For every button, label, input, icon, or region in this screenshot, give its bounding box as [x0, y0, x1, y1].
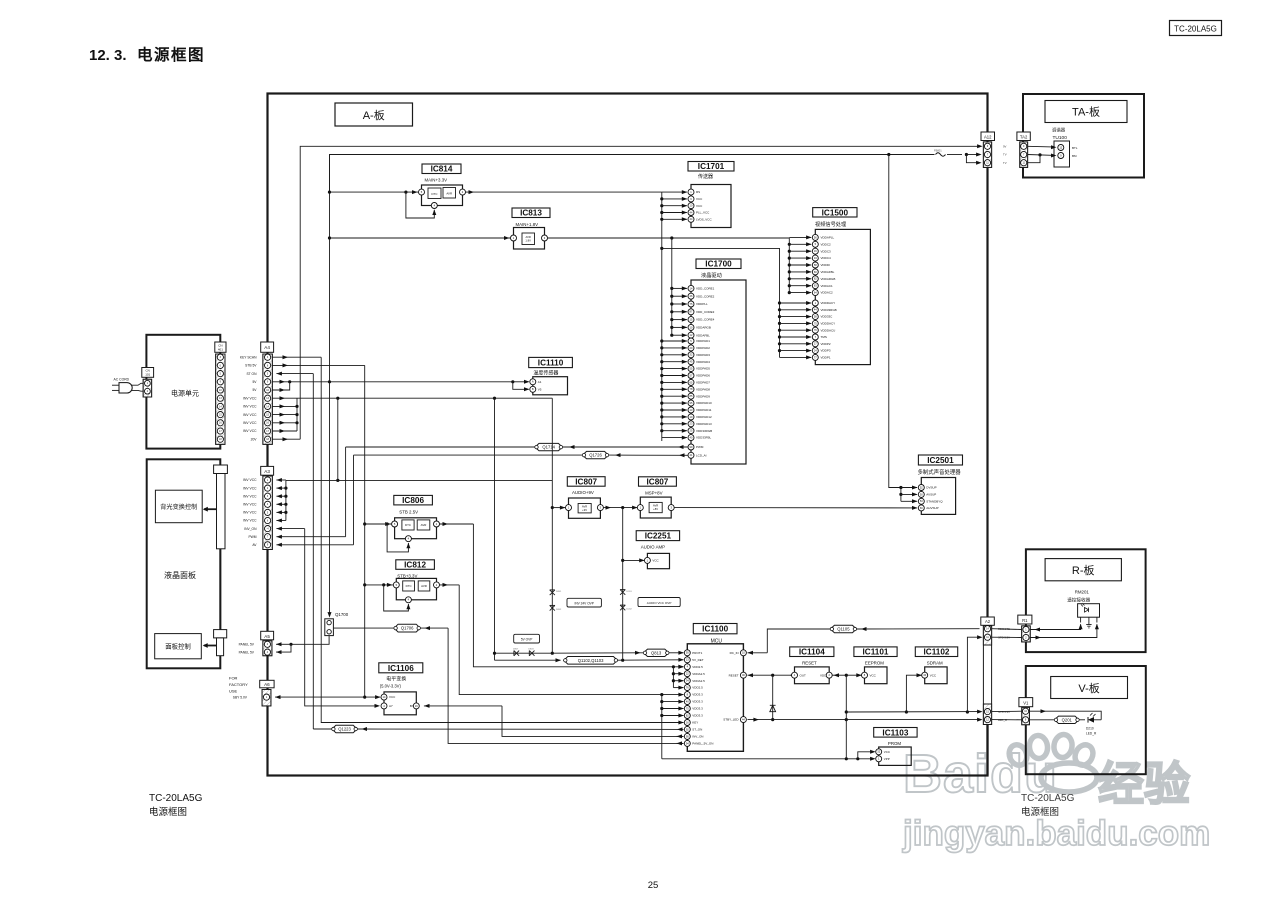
- svg-text:B: B: [532, 387, 534, 391]
- wire IC2251 VCC feed: [623, 559, 645, 561]
- svg-text:IC807: IC807: [575, 477, 597, 486]
- temperature sensor IC1110 label: [529, 357, 573, 367]
- panel connector bar top: [214, 465, 228, 474]
- svg-text:VCC: VCC: [884, 750, 891, 754]
- wire IC1102 VCC feed riser: [906, 675, 921, 712]
- arrow into backlight control: [204, 508, 217, 510]
- svg-text:VDD_CORE1: VDD_CORE1: [696, 287, 715, 291]
- svg-text:VDDC4: VDDC4: [821, 256, 832, 260]
- net 5V vertical rail: [329, 155, 331, 616]
- svg-text:VDD3.3: VDD3.3: [692, 693, 703, 697]
- svg-text:IC2251: IC2251: [645, 532, 672, 541]
- svg-text:5V OVP: 5V OVP: [521, 637, 533, 641]
- svg-text:VDDPAD13: VDDPAD13: [696, 422, 712, 426]
- svg-text:V1: V1: [1023, 700, 1029, 705]
- power supply unit box 电源单元: [146, 335, 220, 449]
- IC1500 group1 feed bus: [788, 238, 790, 293]
- prom IC1103 label: [874, 728, 917, 738]
- A-board label box A-板: [335, 103, 413, 126]
- svg-text:R-板: R-板: [1072, 563, 1095, 577]
- svg-text:VCC: VCC: [870, 673, 877, 677]
- net INV_VCC bus at A4: [272, 397, 297, 399]
- connector A2: [981, 617, 995, 625]
- svg-text:AVR: AVR: [446, 191, 452, 195]
- svg-text:液晶面板: 液晶面板: [164, 570, 196, 580]
- transistor Q1714: [535, 443, 562, 450]
- svg-text:VDDPAD12: VDDPAD12: [696, 415, 712, 419]
- svg-text:AVR: AVR: [582, 504, 587, 508]
- wire TA2 pin3 junction: [1028, 155, 1040, 163]
- IC1700 group1 feed bus: [671, 238, 673, 335]
- net INV_VCC drop to IC807 and OVP: [551, 398, 553, 653]
- IC1100 block: [687, 644, 743, 752]
- svg-text:VDDPAD2: VDDPAD2: [696, 346, 710, 350]
- svg-text:FACTORY: FACTORY: [229, 682, 248, 687]
- svg-text:VDDAFBL: VDDAFBL: [821, 270, 835, 274]
- sound processor IC2501 label 多制式声音处理器: [918, 455, 962, 465]
- MCU VDD2.5 bus: [672, 665, 675, 668]
- svg-text:LED_R: LED_R: [1086, 732, 1097, 736]
- svg-text:PANEL 5V: PANEL 5V: [239, 650, 255, 654]
- svg-text:12. 3.: 12. 3.: [89, 47, 127, 64]
- svg-text:B7: B7: [410, 704, 414, 708]
- svg-text:A-板: A-板: [363, 108, 385, 122]
- svg-text:STBY_LED: STBY_LED: [723, 718, 739, 722]
- svg-text:V-板: V-板: [1078, 681, 1099, 695]
- svg-text:STANDBYQ: STANDBYQ: [926, 499, 943, 503]
- svg-text:VDDPAD10: VDDPAD10: [696, 401, 712, 405]
- net AV A3 riser: [276, 544, 353, 546]
- svg-text:D202: D202: [627, 609, 633, 611]
- svg-text:VDDPLL: VDDPLL: [696, 302, 708, 306]
- svg-text:IC1100: IC1100: [702, 625, 728, 634]
- svg-text:VDDPAD8: VDDPAD8: [696, 387, 710, 391]
- wire R1 pin2 to RM201 vcc: [1030, 624, 1097, 637]
- IC1701 feed bus: [661, 192, 663, 441]
- svg-text:VDD3.3: VDD3.3: [692, 700, 703, 704]
- svg-text:101: 101: [145, 373, 150, 377]
- wire IC814 output to IC bus: [466, 191, 662, 193]
- svg-text:VDD3.3: VDD3.3: [692, 707, 703, 711]
- level shifter IC1106 label: [379, 663, 423, 673]
- connector A3: [261, 466, 274, 475]
- IC1700 PWM pin: [688, 444, 694, 450]
- svg-text:IC1102: IC1102: [924, 648, 950, 657]
- svg-text:SDRAM: SDRAM: [927, 660, 943, 665]
- wire IC814 feedback loop: [404, 191, 407, 194]
- wire Q1105 from A2 REMOTE: [856, 628, 979, 630]
- svg-text:IC1103: IC1103: [882, 728, 908, 737]
- svg-text:TV: TV: [1003, 153, 1007, 157]
- connector A4: [261, 342, 274, 352]
- svg-text:BTL: BTL: [1072, 146, 1078, 150]
- regulator IC806 label STB 2.5V: [394, 495, 433, 505]
- wires plug to CN101: [131, 383, 144, 385]
- wire IC807 MSP output to IC2501 AHVSUP: [674, 507, 917, 509]
- svg-text:调谐器: 调谐器: [1052, 127, 1066, 134]
- IC1101 block: [865, 667, 888, 684]
- svg-text:Q1700: Q1700: [335, 612, 349, 617]
- svg-text:PWM: PWM: [248, 535, 256, 539]
- svg-text:经验: 经验: [1098, 758, 1190, 810]
- svg-text:Q1726: Q1726: [589, 453, 602, 458]
- svg-text:背光变换控制: 背光变换控制: [160, 503, 197, 511]
- IC1110 block: [533, 377, 568, 395]
- svg-text:D201: D201: [627, 591, 633, 593]
- svg-text:IC1106: IC1106: [388, 664, 414, 673]
- svg-text:RC_IN: RC_IN: [730, 651, 739, 655]
- wire IC1106 B7 to MCU INV_ON: [424, 705, 502, 707]
- svg-text:MAIN+1.8V: MAIN+1.8V: [516, 222, 539, 227]
- svg-text:TC-20LA5G: TC-20LA5G: [1021, 793, 1075, 804]
- svg-text:IC806: IC806: [402, 496, 424, 505]
- svg-text:VDDPAD6: VDDPAD6: [696, 374, 710, 378]
- svg-text:VDDPAD11: VDDPAD11: [696, 408, 712, 412]
- net audio VCC vertical: [622, 508, 624, 661]
- svg-text:BM: BM: [1072, 154, 1077, 158]
- svg-text:IC814: IC814: [431, 165, 453, 174]
- net PWM line to IC1700 via Q1714: [346, 446, 535, 448]
- svg-text:LCD_AI: LCD_AI: [696, 453, 707, 457]
- wire A2 to R1 REMOTE: [992, 628, 1022, 631]
- wire IC813 input: [330, 237, 511, 239]
- diodes AUDIO VCC OVP: [620, 590, 625, 595]
- eeprom IC1101 label: [854, 647, 897, 657]
- svg-text:VDDC3: VDDC3: [821, 249, 832, 253]
- svg-text:VDDPAD3: VDDPAD3: [696, 353, 710, 357]
- INV 24V OVP label box: [567, 598, 601, 607]
- svg-text:INV VCC: INV VCC: [243, 478, 257, 482]
- transistor Q1223: [332, 725, 357, 732]
- svg-text:VDDP2: VDDP2: [821, 342, 831, 346]
- svg-text:MAIN+3.3V: MAIN+3.3V: [425, 177, 448, 182]
- sdram IC1102 label: [915, 647, 957, 657]
- svg-text:5V_DET: 5V_DET: [692, 658, 704, 662]
- svg-text:电源单元: 电源单元: [171, 389, 199, 398]
- net 5V drop to 5V OVP line: [494, 398, 496, 660]
- wire TA2 pin1 to TU100: [1028, 145, 1052, 148]
- svg-text:VDD33RGB: VDD33RGB: [821, 308, 837, 312]
- svg-text:DTC: DTC: [432, 192, 438, 196]
- connector A5: [261, 631, 274, 640]
- svg-text:TU100: TU100: [1053, 135, 1068, 141]
- svg-text:ST ON: ST ON: [246, 372, 257, 376]
- transistor Q813: [644, 649, 669, 656]
- svg-text:VDD33C: VDD33C: [821, 315, 834, 319]
- svg-text:IC1500: IC1500: [822, 208, 849, 217]
- svg-text:液晶驱动: 液晶驱动: [701, 271, 722, 279]
- wire A5 pins merge: [276, 643, 291, 645]
- LED D210: [1079, 719, 1085, 721]
- svg-text:VCC: VCC: [696, 204, 703, 208]
- diode on RESET/STBY_LED: [772, 675, 774, 719]
- wire 5V OVP line to Q813 to MCU PROT1: [552, 652, 643, 654]
- wire IC812 input from STB5V: [365, 584, 394, 586]
- regulator IC813 label: [512, 208, 550, 218]
- svg-text:D210: D210: [1086, 727, 1094, 731]
- svg-text:VCC: VCC: [389, 695, 396, 699]
- wire IC2501 supply from 5V-TA line: [887, 153, 890, 156]
- wire A6 SBY5V to IC1106 VCC: [275, 696, 380, 698]
- IC1701 block: [691, 185, 731, 228]
- svg-text:VDDDI: VDDDI: [821, 263, 831, 267]
- svg-text:A2: A2: [985, 619, 991, 624]
- svg-text:面板控制: 面板控制: [165, 642, 191, 651]
- model label box TC-20LA5G: [1170, 21, 1222, 36]
- svg-text:PWM: PWM: [696, 445, 704, 449]
- svg-text:Q1714: Q1714: [542, 445, 555, 450]
- MCU IC1100 label: [693, 624, 737, 634]
- svg-text:IC813: IC813: [520, 209, 542, 218]
- svg-text:OUT: OUT: [800, 673, 807, 677]
- wire IC806 feedback: [386, 522, 389, 525]
- svg-text:INV VCC: INV VCC: [243, 519, 257, 523]
- svg-text:EEPROM: EEPROM: [865, 660, 884, 665]
- svg-text:VCC: VCC: [930, 673, 937, 677]
- panel control box 面板控制: [155, 634, 202, 659]
- IC1102 block: [925, 667, 947, 684]
- svg-text:D803: D803: [528, 649, 534, 651]
- svg-text:A5: A5: [264, 634, 270, 639]
- wire IC812 output STB3.3 to MCU VDD3.3: [440, 584, 460, 586]
- net 5V rail to IC1110: [290, 381, 513, 383]
- wire IC814 input: [330, 191, 419, 193]
- svg-text:VDDDACU: VDDDACU: [821, 328, 836, 332]
- regulator IC807 MSP+8V label: [639, 477, 677, 486]
- svg-text:401: 401: [218, 348, 223, 352]
- svg-text:AUDIO+9V: AUDIO+9V: [572, 490, 594, 495]
- regulator IC814 block: [422, 185, 463, 206]
- net KEY_SCAN: [272, 356, 321, 358]
- net 20V: A4 pin18 to A12 pin1: [272, 438, 300, 440]
- regulator IC813 block: [514, 228, 545, 250]
- 5V OVP label box: [514, 634, 540, 643]
- svg-text:VDD2.5: VDD2.5: [692, 665, 703, 669]
- svg-text:25: 25: [648, 880, 659, 891]
- svg-text:电平变换: 电平变换: [386, 676, 406, 683]
- net LCD_AI line to IC1700 via Q1726: [354, 454, 583, 456]
- svg-text:VDD2.5: VDD2.5: [692, 686, 703, 690]
- svg-text:遥控接收器: 遥控接收器: [1067, 597, 1090, 604]
- net ST_ON from Q1223 to A4 pin5: [276, 373, 313, 375]
- svg-text:V5: V5: [538, 387, 542, 391]
- svg-text:电源框图: 电源框图: [149, 806, 187, 818]
- svg-text:PANEL_5V_ON: PANEL_5V_ON: [692, 742, 713, 746]
- backlight inverter control box 背光变换控制: [155, 490, 202, 523]
- A-board border stub below A2: [986, 725, 988, 776]
- transistor Q1105: [830, 625, 856, 632]
- audio amp IC2251 label: [636, 531, 679, 541]
- net STB5V vertical rail: [272, 364, 364, 366]
- svg-text:VDDPAD4: VDDPAD4: [696, 360, 710, 364]
- IC1106 block: [384, 692, 416, 715]
- net 5V-TA: line to A12 pins 2,3 via FB801: [330, 155, 935, 193]
- panel internal wire: [220, 549, 222, 630]
- svg-text:DVSUP: DVSUP: [926, 486, 936, 490]
- wire IC807 audio output to MSP: [603, 507, 637, 509]
- svg-text:20V: 20V: [251, 437, 258, 441]
- wire V1 pin2 to Q201: [1029, 719, 1054, 721]
- svg-text:RS: RS: [696, 190, 700, 194]
- IC1500 block: [815, 229, 870, 364]
- svg-text:AVSUP: AVSUP: [926, 493, 936, 497]
- svg-text:温度传感器: 温度传感器: [533, 369, 558, 376]
- svg-text:VDDARGB: VDDARGB: [696, 326, 711, 330]
- connector CN401: [215, 342, 226, 352]
- wire Q1706 from PANEL_5V_ON: [420, 627, 448, 629]
- svg-text:Q201: Q201: [1062, 717, 1073, 722]
- svg-text:IC1104: IC1104: [799, 648, 825, 657]
- svg-text:SBY 5.0V: SBY 5.0V: [233, 695, 248, 699]
- svg-text:Q1102,Q1103: Q1102,Q1103: [578, 658, 604, 663]
- V-board label box V-板: [1051, 677, 1128, 699]
- svg-text:USE: USE: [229, 689, 238, 694]
- TA-board label box TA-板: [1045, 101, 1127, 123]
- net STB3.3 riser x846: [845, 675, 847, 759]
- svg-text:AVR: AVR: [526, 235, 531, 239]
- svg-text:AHVSUP: AHVSUP: [926, 506, 938, 510]
- svg-text:VPP: VPP: [884, 757, 890, 761]
- svg-text:IC2501: IC2501: [927, 456, 954, 465]
- regulator IC807 AUDIO+9V label: [567, 477, 605, 487]
- svg-text:VDDAPLL: VDDAPLL: [821, 236, 835, 240]
- svg-text:VCC: VCC: [696, 197, 703, 201]
- svg-text:VDD33FBL: VDD33FBL: [696, 436, 712, 440]
- svg-text:PROM: PROM: [888, 741, 902, 746]
- net PWM A3 riser: [276, 536, 345, 538]
- transistor pair Q1102,Q1103: [495, 659, 561, 661]
- svg-text:IC1110: IC1110: [538, 358, 564, 367]
- wire V1 pin1 supply loop: [1029, 711, 1101, 720]
- svg-text:IC812: IC812: [404, 561, 426, 570]
- wire IC806 input from STB5V: [365, 523, 392, 525]
- IC1700 group2 feed from main bus: [660, 339, 663, 342]
- svg-text:STB 2.5V: STB 2.5V: [399, 510, 418, 515]
- wire MCU RESET from IC1104: [748, 674, 795, 676]
- svg-text:A7: A7: [389, 704, 393, 708]
- svg-text:A12: A12: [984, 134, 992, 139]
- IC807 MSP block: [640, 497, 671, 518]
- V-board outline: [1026, 666, 1146, 774]
- svg-text:A1: A1: [538, 380, 542, 384]
- wire TA2 pin2 to TU100: [1028, 154, 1052, 157]
- RM201 IR diode symbol: [1085, 608, 1089, 613]
- reset IC1104 label: [790, 647, 834, 657]
- wire IC812 feedback: [382, 583, 385, 586]
- net STB3.3 rail to A2 pin15: [846, 711, 979, 713]
- svg-text:VDDPAD7: VDDPAD7: [696, 381, 710, 385]
- net INV_VCC drop to A3: [337, 398, 339, 480]
- A-board outline: [268, 94, 988, 776]
- baidu watermark: [902, 733, 1210, 853]
- svg-text:INV_ON: INV_ON: [692, 735, 703, 739]
- IC806 block: [395, 518, 437, 539]
- svg-text:VDDA2.5: VDDA2.5: [692, 672, 705, 676]
- arrow into panel control: [204, 645, 217, 647]
- svg-text:A3: A3: [264, 469, 270, 474]
- svg-text:VDDAFBL: VDDAFBL: [696, 333, 710, 337]
- svg-text:多制式声音处理器: 多制式声音处理器: [918, 468, 962, 476]
- 5V OVP diode line: [495, 652, 553, 654]
- svg-text:PROT1: PROT1: [692, 651, 702, 655]
- svg-text:VDDARGB: VDDARGB: [821, 277, 836, 281]
- svg-text:VDDDACY: VDDDACY: [821, 322, 836, 326]
- svg-text:传送器: 传送器: [698, 173, 713, 180]
- wire R1 pin1 to RM201 out: [1030, 624, 1080, 629]
- IC1500 label 视频信号处理: [813, 208, 857, 217]
- svg-text:LVDS_VCC: LVDS_VCC: [696, 217, 712, 221]
- wire IC1104 VDD feed: [832, 674, 846, 676]
- connector R1: [1018, 615, 1032, 624]
- svg-text:VDD_CORE4: VDD_CORE4: [696, 318, 715, 322]
- svg-text:VDDAC1: VDDAC1: [821, 284, 834, 288]
- svg-text:KEY SCAN: KEY SCAN: [240, 355, 257, 359]
- svg-text:D851: D851: [556, 591, 562, 593]
- svg-text:IC1101: IC1101: [863, 648, 889, 657]
- svg-text:INV VCC: INV VCC: [243, 494, 257, 498]
- wire Q1223 left to ST_ON riser: [313, 728, 332, 730]
- svg-text:+9V: +9V: [582, 508, 587, 512]
- svg-text:INV VCC: INV VCC: [243, 413, 257, 417]
- svg-text:RESET: RESET: [729, 673, 739, 677]
- svg-text:Q1223: Q1223: [338, 727, 351, 732]
- svg-text:PANEL 5V: PANEL 5V: [239, 643, 255, 647]
- svg-text:VDDPAD9: VDDPAD9: [696, 394, 710, 398]
- svg-text:VDDAC2: VDDAC2: [821, 291, 834, 295]
- net STB3.3 rail to IC1103: [662, 758, 874, 760]
- IC812 block: [396, 578, 436, 599]
- svg-text:FB801: FB801: [934, 148, 942, 152]
- R-board outline: [1026, 549, 1146, 652]
- svg-text:KEY: KEY: [692, 721, 698, 725]
- svg-text:AVR: AVR: [421, 584, 427, 588]
- svg-text:VDDP1: VDDP1: [821, 356, 831, 360]
- AUDIO VCC OVP label box: [638, 598, 680, 607]
- wire MCU RC_IN from Q1105: [748, 652, 768, 654]
- LCD panel box 液晶面板: [147, 459, 221, 668]
- svg-text:TA-板: TA-板: [1072, 105, 1100, 119]
- net INV_ON A3 to IC1106 A7: [276, 528, 304, 530]
- svg-text:VDDPAD5: VDDPAD5: [696, 367, 710, 371]
- connector A12: [981, 132, 995, 141]
- wire Q1700 to A5 PANEL 5V: [291, 636, 329, 645]
- svg-text:INV VCC: INV VCC: [243, 421, 257, 425]
- svg-text:D807: D807: [513, 649, 519, 651]
- IC1103 block: [879, 747, 912, 765]
- IC1500 group2 feed bus: [660, 247, 663, 250]
- IC2501 block: [921, 478, 955, 515]
- svg-text:TV: TV: [1003, 161, 1007, 165]
- svg-text:+8V: +8V: [653, 507, 658, 511]
- svg-text:R1: R1: [1022, 618, 1028, 623]
- diodes INV 24V OVP: [550, 590, 555, 595]
- svg-text:Q1105: Q1105: [837, 627, 850, 632]
- svg-text:RM201: RM201: [1075, 590, 1090, 595]
- wire IC813 output to IC1500 bus: [548, 237, 790, 239]
- TA-board outline: [1023, 94, 1144, 178]
- svg-text:VCC: VCC: [652, 559, 659, 563]
- svg-text:AVR: AVR: [421, 523, 427, 527]
- transistor Q1726: [583, 451, 609, 458]
- svg-text:INV VCC: INV VCC: [243, 503, 257, 507]
- svg-text:VDDP3: VDDP3: [821, 349, 831, 353]
- svg-text:Q813: Q813: [651, 650, 662, 655]
- IC1700 block: [691, 280, 746, 464]
- svg-text:VDDC2: VDDC2: [821, 242, 832, 246]
- wire MCU STBY_LED to A2 LED_R: [748, 719, 980, 721]
- svg-text:AC CORD: AC CORD: [114, 378, 130, 382]
- connector CN101: [142, 368, 154, 378]
